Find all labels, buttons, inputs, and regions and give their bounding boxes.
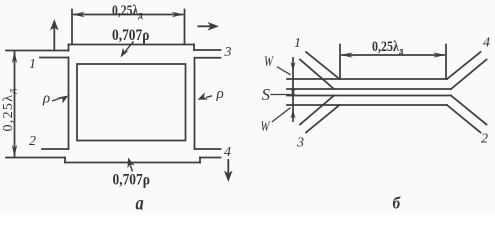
- svg-text:ρ: ρ: [42, 91, 50, 107]
- arrowhead dim right (b): [433, 52, 446, 57]
- step port1 to ring top: [68, 45, 70, 51]
- svg-text:S: S: [262, 85, 271, 104]
- arrowhead top-dim right: [172, 12, 185, 17]
- dimension extension line left (top dim a): [71, 10, 73, 45]
- ring inner opening rectangle: [77, 64, 186, 141]
- step ring bottom to port4: [199, 158, 201, 163]
- port 3 feed lower edge diagonal (b): [306, 105, 340, 133]
- port 4 feed upper edge diagonal (b): [447, 52, 481, 79]
- dimension extension line right (b): [445, 45, 447, 79]
- arrowhead left-dim bottom: [12, 145, 17, 158]
- port 4 stub bottom edge: [200, 157, 221, 159]
- port 1 stub bottom edge: [40, 57, 69, 59]
- coupled line2 top strip lower edge (b): [287, 88, 451, 90]
- svg-text:4: 4: [224, 145, 231, 160]
- output right arrow at top right: [198, 22, 220, 31]
- port 1 feed lower edge diagonal (b): [300, 60, 334, 90]
- arrowhead W top strip upper (b): [291, 62, 296, 71]
- leader arrow for rho left: [52, 96, 68, 104]
- dimension extension line right (top dim a): [184, 10, 186, 45]
- svg-text:3: 3: [296, 136, 304, 151]
- port 4 stub top edge: [195, 148, 221, 150]
- leader line W top (b): [278, 67, 291, 75]
- port 2 stub top edge: [42, 148, 69, 150]
- port 2 stub bottom edge / dimension reference: [6, 157, 65, 159]
- port 1 stub top edge / dimension reference: [6, 50, 69, 52]
- left branch line outer edge: [68, 58, 70, 150]
- port 3 feed upper edge diagonal (b): [300, 96, 334, 125]
- leader arrow for rho right: [198, 93, 213, 100]
- svg-text:W: W: [261, 117, 271, 134]
- output down arrow at port 4: [224, 159, 233, 182]
- leader line S (b): [271, 94, 290, 96]
- coupled line4 bottom strip lower edge (b): [287, 104, 447, 106]
- svg-text:ρ: ρ: [216, 86, 224, 102]
- dimension extension line left (b): [339, 45, 341, 79]
- svg-text:1: 1: [29, 57, 36, 72]
- port 2 feed lower edge diagonal (b): [447, 105, 481, 133]
- svg-text:б: б: [393, 195, 402, 212]
- leader arrow for 0,707rho bottom: [128, 158, 135, 172]
- input up arrow at port 1: [50, 19, 59, 51]
- ring bottom series line 0.707rho outer edge: [65, 162, 200, 164]
- W and S measuring vertical line (b): [292, 58, 294, 121]
- ring top series line 0.707rho outer edge: [69, 44, 195, 46]
- port 1 feed upper edge diagonal (b): [306, 52, 340, 79]
- arrowhead dim left (b): [340, 52, 353, 57]
- port 3 stub bottom edge: [195, 57, 221, 59]
- arrowhead W bottom strip lower (b): [291, 110, 296, 119]
- dimension arrow line 0.25lambda (b): [342, 54, 444, 56]
- arrowhead left-dim top: [12, 51, 17, 64]
- dimension arrow line 0.25lambda (a top): [74, 14, 183, 16]
- svg-text:2: 2: [481, 132, 488, 147]
- port 2 feed upper edge diagonal (b): [451, 96, 487, 125]
- svg-text:0,707ρ: 0,707ρ: [113, 172, 150, 189]
- svg-text:1: 1: [294, 36, 301, 51]
- svg-text:0,25λд: 0,25λд: [112, 2, 143, 22]
- svg-text:0,707ρ: 0,707ρ: [112, 27, 149, 44]
- step port2 to ring bottom: [64, 158, 66, 163]
- svg-text:а: а: [136, 192, 144, 212]
- coupled line3 bottom strip upper edge (b): [287, 95, 451, 97]
- svg-text:4: 4: [483, 36, 490, 51]
- left dimension line vertical (a): [14, 52, 16, 156]
- arrowhead top-dim left: [72, 12, 85, 17]
- port 4 feed lower edge diagonal (b): [451, 60, 487, 90]
- arrowhead W bottom strip upper (b): [291, 88, 296, 96]
- leader arrow for 0,707rho top: [121, 42, 134, 58]
- svg-text:3: 3: [224, 45, 232, 60]
- svg-text:W: W: [264, 52, 274, 69]
- svg-text:0,25λд: 0,25λд: [1, 87, 18, 131]
- port 3 stub top edge: [194, 49, 221, 51]
- leader line W bottom (b): [273, 108, 291, 122]
- step port3 to ring top: [193, 45, 195, 51]
- right branch line outer edge: [194, 58, 196, 149]
- arrowhead W top strip lower (b): [291, 89, 296, 97]
- coupled line1 top strip upper edge (b): [287, 78, 447, 80]
- svg-text:2: 2: [29, 134, 36, 149]
